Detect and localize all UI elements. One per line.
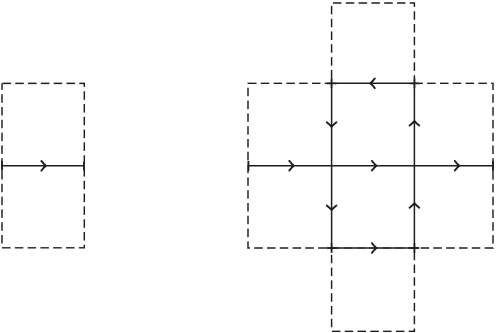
dashed rectangle (right figure, bottom flap) xyxy=(332,248,415,331)
wire: solid right edge of central square (edge c', upward) xyxy=(413,83,415,248)
arrow on edge b (points left) xyxy=(370,79,375,89)
node: end bar at top of edge c xyxy=(327,82,337,84)
wire: identified edge a of right figure (full-width horizontal line) xyxy=(248,165,493,167)
dashed rectangle (left figure, square A) xyxy=(2,83,84,247)
arrow on edge a (points right) xyxy=(41,161,46,171)
node: end bar right of edge b (vertical bar, top-right corner) xyxy=(413,79,415,89)
arrow on edge c lower half (points down) xyxy=(327,206,337,211)
wire: solid top edge of central square (edge b) xyxy=(332,82,415,84)
arrow on edge c' upper half (points up) xyxy=(410,121,420,126)
node: end bar at bottom of edge c' xyxy=(410,247,420,249)
arrow on edge c upper half (points down) xyxy=(327,122,337,127)
arrow on edge b' (points right) xyxy=(372,243,377,253)
wire: solid bottom edge of central square (edge b') xyxy=(332,247,415,249)
node: end bar right of right-figure edge a xyxy=(492,161,494,171)
node: end bar left of edge a xyxy=(1,161,3,171)
arrow on right-figure edge a, left segment (points right) xyxy=(289,161,294,171)
node: end bar at top of edge c' xyxy=(410,82,420,84)
dashed rectangle (right figure, top flap) xyxy=(332,3,415,83)
arrow on edge c' lower half (points up) xyxy=(410,203,420,208)
wire: identified edge a of left figure (horizontal line) xyxy=(2,165,84,167)
wire: solid left edge of central square (edge c, downward) xyxy=(331,83,333,248)
arrow on right-figure edge a, right segment (points right) xyxy=(455,161,460,171)
node: end bar left of edge b' (vertical bar, bottom-left corner) xyxy=(331,243,333,253)
dashed rectangle (right figure, wide middle) xyxy=(248,83,493,248)
arrow on right-figure edge a, middle segment (points right) xyxy=(372,161,377,171)
node: end bar right of edge a xyxy=(83,162,85,171)
node: end bar right of edge b' (vertical bar, bottom-right corner) xyxy=(413,243,415,253)
node: end bar left of edge b (vertical bar, top-left corner) xyxy=(331,79,333,89)
node: end bar at bottom of edge c xyxy=(327,247,337,249)
node: end bar left of right-figure edge a xyxy=(247,161,249,171)
